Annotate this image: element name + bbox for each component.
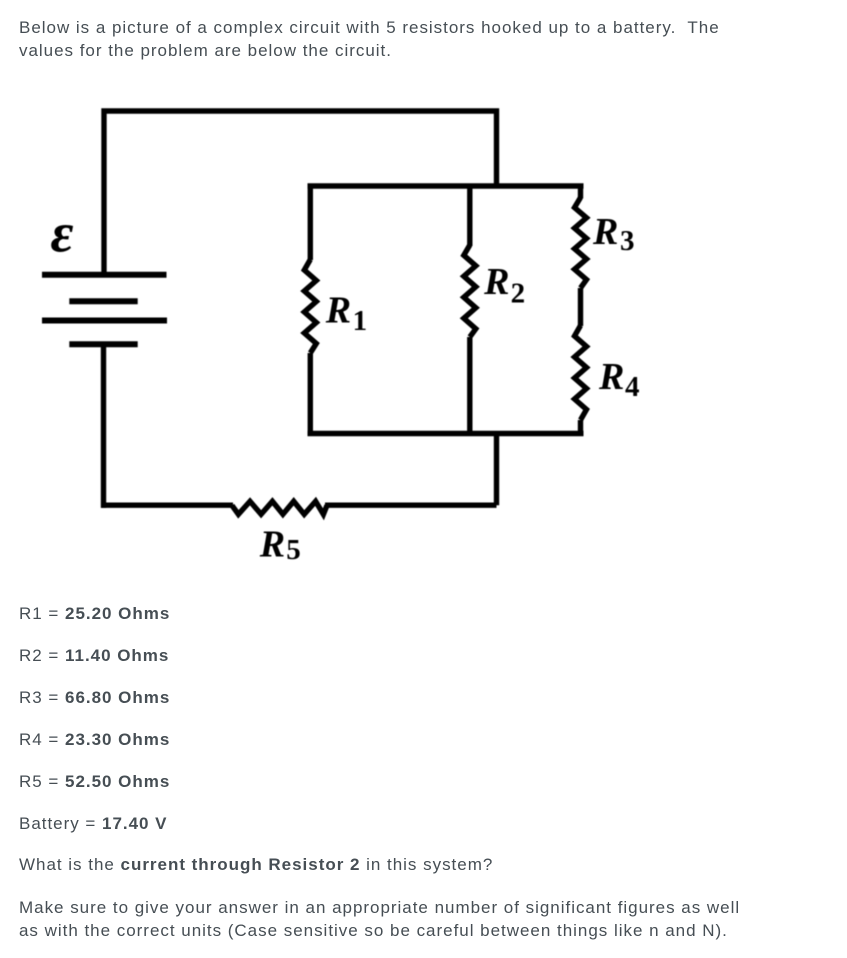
paragraph: intro text bbox=[19, 16, 720, 62]
svg-text:R: R bbox=[592, 211, 618, 253]
resistor R1 bbox=[304, 260, 316, 354]
svg-text:R: R bbox=[325, 289, 351, 331]
svg-text:3: 3 bbox=[620, 225, 635, 257]
resistor R4 bbox=[575, 326, 587, 421]
wire R4 bottom stub bbox=[578, 420, 583, 434]
paragraph: R2 value bbox=[19, 644, 169, 667]
battery plate long bbox=[42, 318, 167, 324]
battery plate long top (positive) bbox=[42, 272, 167, 278]
wire R2 branch top bbox=[467, 186, 472, 246]
paragraph: battery value bbox=[19, 812, 168, 835]
wire battery negative terminal down bbox=[101, 343, 106, 508]
svg-text:5: 5 bbox=[286, 534, 301, 566]
svg-text:R: R bbox=[259, 524, 285, 566]
wire R3 branch top stub bbox=[578, 186, 583, 199]
wire R1 branch bottom bbox=[308, 353, 313, 434]
node top rail of parallel network bbox=[308, 183, 584, 188]
paragraph: instructions bbox=[19, 896, 740, 942]
svg-text:1: 1 bbox=[353, 305, 368, 337]
wire battery positive terminal up and across to top-right corner, down to parallel network bbox=[104, 111, 497, 276]
wire from bottom rail down to bottom loop bbox=[494, 434, 499, 506]
battery plate short bbox=[69, 298, 137, 304]
paragraph: question bbox=[19, 853, 493, 876]
wire R1 branch top bbox=[308, 186, 313, 260]
resistor R5 bbox=[232, 501, 327, 514]
wire bottom loop left segment bbox=[101, 503, 233, 508]
node bottom rail of parallel network bbox=[308, 431, 584, 436]
svg-text:4: 4 bbox=[625, 371, 640, 403]
circuit schematic bbox=[0, 0, 847, 600]
wire R2 branch bottom bbox=[467, 337, 472, 436]
svg-text:2: 2 bbox=[511, 278, 525, 310]
battery plate short bottom (negative) bbox=[69, 341, 137, 347]
wire between R3 and R4 bbox=[578, 288, 583, 326]
paragraph: R1 value bbox=[19, 602, 170, 625]
resistor R2 bbox=[464, 245, 476, 337]
paragraph: R3 value bbox=[19, 686, 170, 709]
svg-text:R: R bbox=[483, 261, 509, 303]
svg-text:R: R bbox=[598, 356, 624, 398]
svg-text:ε: ε bbox=[51, 202, 74, 264]
resistor R3 bbox=[575, 198, 587, 289]
paragraph: R5 value bbox=[19, 770, 170, 793]
paragraph: R4 value bbox=[19, 728, 170, 751]
wire bottom loop right segment bbox=[325, 503, 497, 508]
